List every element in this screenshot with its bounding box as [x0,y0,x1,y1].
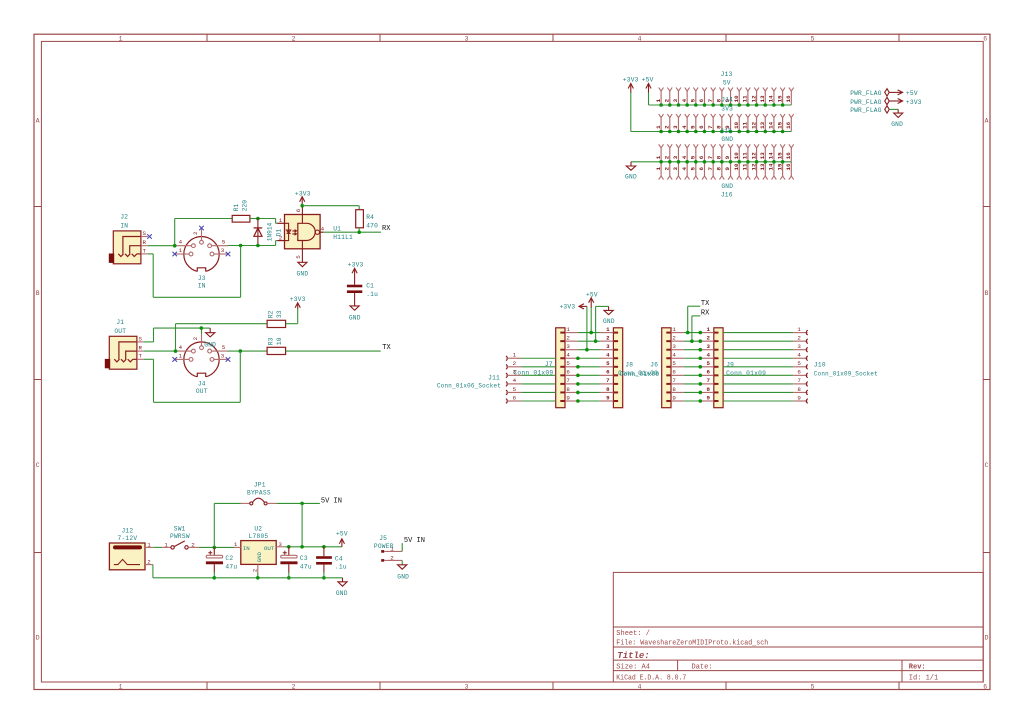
svg-text:B: B [36,290,40,297]
J2 pins S R T [141,236,148,238]
ground symbol GND (header bus) [626,162,635,170]
svg-text:15: 15 [776,163,783,170]
J4 key notch [197,373,206,378]
svg-text:11: 11 [742,163,749,170]
svg-text:.1u: .1u [366,291,378,298]
ground symbol GND (J4 shield) [206,328,215,337]
junction dots 5V bus [659,103,784,107]
svg-text:1: 1 [119,684,123,691]
svg-text:1: 1 [513,352,517,359]
J1 pins S R T [137,341,144,343]
svg-text:2: 2 [707,334,711,341]
svg-text:2: 2 [192,336,199,340]
J4 pin 1 (no connect) [189,358,193,362]
svg-text:Date:: Date: [692,664,713,672]
svg-text:C: C [36,462,40,469]
svg-text:16: 16 [785,95,792,102]
net label TX wire [687,306,689,332]
svg-text:7: 7 [672,377,676,384]
svg-text:RX: RX [701,310,710,318]
power symbol +3V3 (left arrow) [579,304,587,309]
J4 pin 3 (no connect) [210,358,214,362]
power tap +3V3 row3 [586,306,588,349]
ground symbol GND (header tap) [604,306,613,314]
svg-text:4: 4 [606,352,610,359]
svg-text:GND: GND [349,314,361,321]
svg-text:5V IN: 5V IN [404,537,425,545]
svg-text:2: 2 [663,167,670,171]
svg-text:GND: GND [721,183,733,190]
svg-text:2: 2 [663,125,670,129]
svg-text:2: 2 [292,684,296,691]
svg-text:2: 2 [663,98,670,102]
junction [287,576,291,580]
svg-text:8: 8 [707,386,711,393]
U1 pin 6 (VCC) [301,206,303,224]
junction [256,217,260,221]
power symbol +3V3 (U1) [300,197,305,206]
svg-text:3V3: 3V3 [721,105,733,112]
svg-text:+3V3: +3V3 [290,296,306,303]
wire U2.2 to rail [257,573,259,578]
svg-text:C2: C2 [225,555,233,562]
svg-text:4: 4 [681,125,688,129]
wire JP1 down to OUT [301,503,303,546]
svg-text:4: 4 [681,167,688,171]
svg-text:5: 5 [672,360,676,367]
ground symbol GND (U1) [298,262,307,266]
svg-text:OUT: OUT [196,388,208,395]
wire J12.1 to SW1 [153,546,162,548]
svg-text:8: 8 [797,386,801,393]
svg-text:9: 9 [707,394,711,401]
svg-text:13: 13 [759,95,766,102]
junction [174,349,178,353]
svg-text:J9: J9 [726,361,734,368]
svg-text:10: 10 [733,121,740,128]
wires J9 to J10 [723,333,793,401]
svg-text:5: 5 [222,344,226,351]
wire J5.1 to 5V IN [401,543,403,551]
svg-text:3: 3 [513,369,517,376]
wire SW1 to U2 [199,546,234,548]
svg-text:A: A [36,117,40,124]
svg-text:6: 6 [698,167,705,171]
svg-text:7-12V: 7-12V [117,535,137,542]
no-connect J2 S [147,234,152,239]
power tap +5V row1 [590,307,592,333]
svg-text:13: 13 [759,163,766,170]
svg-text:7: 7 [707,98,714,102]
svg-text:PWRSW: PWRSW [170,533,190,540]
svg-text:GND: GND [721,136,733,143]
svg-text:6: 6 [707,369,711,376]
svg-text:9: 9 [672,394,676,401]
svg-text:3: 3 [672,167,679,171]
wire J1.T loop [144,358,154,360]
junction [300,204,304,208]
capacitor C3 47u [288,547,290,556]
svg-text:5: 5 [797,360,801,367]
wire R3 to TX [286,350,381,352]
svg-text:14: 14 [768,95,775,102]
svg-text:8: 8 [716,155,723,159]
J1 sleeve block [105,359,110,368]
wire J5.2 to GND [401,560,403,564]
svg-text:JP1: JP1 [254,481,266,488]
svg-text:R4: R4 [366,214,374,221]
wire GND bus [631,161,791,163]
svg-text:11: 11 [742,152,749,159]
wires J6-J9 rows [684,333,700,401]
svg-text:C: C [985,462,989,469]
svg-text:U2: U2 [254,525,262,532]
J4 pin 2 (shield) [200,346,204,350]
wire U1.4 to RX [323,231,381,233]
wires J11 to J7 [521,358,555,401]
wire J1.S to shield [144,341,154,343]
svg-text:PWR_FLAG: PWR_FLAG [850,90,882,97]
svg-text:Conn_01x09: Conn_01x09 [726,370,766,377]
svg-text:Conn_01x06_Socket: Conn_01x06_Socket [437,383,501,390]
svg-text:10: 10 [733,152,740,159]
svg-text:PWR_FLAG: PWR_FLAG [850,99,882,106]
svg-text:J10: J10 [814,361,826,368]
svg-text:J3: J3 [198,275,206,282]
U1 pin1/pin2 stubs [277,222,284,224]
J3 pin 4 [192,244,196,248]
svg-text:2: 2 [292,35,296,42]
junction [200,326,204,330]
svg-text:6: 6 [566,369,570,376]
svg-text:R: R [139,345,143,352]
svg-text:GND: GND [296,271,308,278]
wire 5V bus [649,104,792,106]
frame column ticks [206,34,208,41]
connector J7 Conn_01x09 body [556,328,565,408]
junction dots 3V3 bus [659,130,784,134]
ground symbol GND (rail) [338,578,347,586]
power tap GND row2 [595,306,597,341]
svg-text:1: 1 [655,167,662,171]
svg-text:2: 2 [797,334,801,341]
regulator U2 L7805 body [241,541,276,565]
U1 pin 4 output [320,231,324,233]
svg-text:8: 8 [672,386,676,393]
svg-text:Rev:: Rev: [909,664,926,672]
svg-text:1: 1 [179,352,183,359]
svg-text:PWR_FLAG: PWR_FLAG [850,107,882,114]
svg-text:4: 4 [681,155,688,159]
svg-text:33: 33 [276,310,283,318]
J3 key notch [197,268,206,273]
wire C2 tap up to JP1 [213,503,215,547]
svg-text:GND: GND [204,341,216,348]
svg-text:2: 2 [390,555,394,562]
svg-text:4: 4 [672,352,676,359]
svg-text:GND: GND [397,574,409,581]
svg-text:1: 1 [164,541,168,548]
svg-text:2: 2 [147,559,151,566]
svg-text:A: A [985,117,989,124]
connector J6 Conn_01x09 body [662,328,671,408]
svg-text:J11: J11 [488,374,500,381]
junction [322,545,326,549]
svg-text:8: 8 [716,167,723,171]
svg-text:POWER: POWER [374,543,394,550]
svg-text:J2: J2 [120,214,128,221]
wire 3V3 bus [631,131,792,133]
svg-text:3: 3 [707,343,711,350]
U2 pin stubs [234,546,241,548]
svg-text:B: B [985,290,989,297]
svg-text:R: R [143,239,147,246]
svg-text:13: 13 [759,152,766,159]
svg-text:47u: 47u [225,564,237,571]
svg-text:J15: J15 [720,128,732,135]
svg-text:6: 6 [698,125,705,129]
J12 pins [145,546,153,548]
svg-text:IN: IN [198,282,206,289]
connector J5 POWER [381,550,384,553]
svg-text:3: 3 [465,684,469,691]
net label RX wire [691,316,693,341]
svg-text:GND: GND [603,318,615,325]
svg-text:Size: A4: Size: A4 [616,664,650,672]
wire [889,108,898,110]
svg-text:15: 15 [776,121,783,128]
svg-text:14: 14 [768,152,775,159]
svg-text:.1u: .1u [335,564,347,571]
svg-text:6: 6 [983,35,987,42]
svg-text:J8: J8 [625,361,633,368]
svg-text:4: 4 [179,344,183,351]
junction [256,576,260,580]
svg-text:5: 5 [811,684,815,691]
junction [213,546,217,550]
svg-text:7: 7 [707,167,714,171]
svg-text:5: 5 [690,155,697,159]
svg-text:14: 14 [768,163,775,170]
svg-text:2: 2 [606,334,610,341]
U1 internal LED [285,223,297,240]
junction [213,576,217,580]
svg-text:File: WaveshareZeroMIDIProto.k: File: WaveshareZeroMIDIProto.kicad_sch [616,640,768,648]
svg-text:2: 2 [663,155,670,159]
svg-text:+5V: +5V [336,530,348,537]
svg-text:3: 3 [606,343,610,350]
svg-text:TX: TX [382,344,391,352]
svg-text:10: 10 [733,163,740,170]
jumper JP1 BYPASS [241,502,250,504]
svg-text:3: 3 [672,343,676,350]
svg-text:5V: 5V [723,79,731,86]
svg-text:9: 9 [797,394,801,401]
svg-text:GND: GND [891,121,903,128]
svg-text:4: 4 [566,352,570,359]
junction [322,576,326,580]
J2 sleeve block [109,254,114,263]
svg-text:Id: 1/1: Id: 1/1 [909,674,938,682]
svg-text:13: 13 [759,121,766,128]
svg-text:+3V3: +3V3 [348,262,364,269]
svg-text:Conn_01x09: Conn_01x09 [618,370,658,377]
connector J3 DIN-5 circle [184,237,219,272]
svg-text:14: 14 [768,121,775,128]
svg-text:GND: GND [256,551,263,562]
svg-text:4: 4 [638,35,642,42]
svg-text:6: 6 [672,369,676,376]
wire J4.5 to R3 [228,350,267,352]
svg-text:TX: TX [701,300,710,308]
svg-text:J5: J5 [379,535,387,542]
wire JP1 to 5V IN label [276,502,320,504]
svg-text:15: 15 [776,95,783,102]
wire R4 bottom to RX line [358,228,360,232]
svg-text:H11L1: H11L1 [333,234,353,241]
svg-text:1: 1 [655,155,662,159]
junction [357,230,361,234]
svg-text:2: 2 [566,334,570,341]
svg-text:4: 4 [513,377,517,384]
junction [287,545,291,549]
svg-text:GND: GND [625,173,637,180]
svg-text:5: 5 [222,239,226,246]
svg-text:12: 12 [750,152,757,159]
svg-text:3: 3 [221,352,225,359]
J4 pin 4 [192,349,196,353]
svg-text:+3V3: +3V3 [623,77,639,84]
power symbol +5V (U2 out) [339,539,344,547]
svg-text:OUT: OUT [264,545,275,552]
svg-text:IN: IN [120,223,128,230]
svg-text:4: 4 [321,225,325,232]
svg-text:4: 4 [638,684,642,691]
svg-text:16: 16 [785,152,792,159]
svg-text:3: 3 [672,125,679,129]
svg-text:3: 3 [221,247,225,254]
svg-text:9: 9 [724,167,731,171]
J3 pin 5 [208,244,212,248]
connector J13 pins (5V header) [655,88,794,106]
svg-text:8: 8 [606,386,610,393]
svg-text:+3V3: +3V3 [559,304,575,311]
svg-text:4: 4 [681,98,688,102]
svg-text:5: 5 [690,98,697,102]
svg-text:8: 8 [566,386,570,393]
power symbol +5V [648,92,650,105]
svg-text:2: 2 [251,568,258,572]
wire R1 to D1 top [250,218,258,220]
junction [300,545,304,549]
junction dots J7 rows 4-9 [576,356,580,402]
svg-text:9: 9 [724,155,731,159]
svg-text:5: 5 [811,35,815,42]
svg-text:Sheet: /: Sheet: / [616,630,650,638]
resistor R2 [267,320,286,327]
svg-text:3: 3 [672,98,679,102]
svg-text:C4: C4 [335,555,343,562]
svg-text:12: 12 [750,121,757,128]
wire J1.R to J4.4 [144,350,176,352]
svg-text:1: 1 [566,326,570,333]
wire J2.T loop [148,253,154,255]
svg-text:7: 7 [707,377,711,384]
svg-text:J14: J14 [721,96,733,103]
svg-text:1N914: 1N914 [267,222,274,241]
svg-text:S: S [139,335,143,342]
svg-text:6: 6 [606,369,610,376]
resistor R3 [267,347,286,354]
J3 pin 2 (shield) [200,240,204,244]
svg-text:15: 15 [776,152,783,159]
svg-text:R2: R2 [267,310,274,318]
svg-text:7: 7 [797,377,801,384]
svg-text:1: 1 [119,35,123,42]
svg-text:1: 1 [707,326,711,333]
wire U2 OUT to +5V [285,546,342,548]
resistor R4 [356,210,364,228]
svg-text:GND: GND [336,590,348,597]
power flag PWR_FLAG (+5V) [885,89,890,96]
J4 pin 5 [208,349,212,353]
wire R2 to +3V3 [286,323,298,325]
power symbol +3V3 arrow [889,99,902,104]
connector J8 Conn_01x09 body [613,328,622,408]
svg-text:6: 6 [698,98,705,102]
svg-text:5: 5 [690,167,697,171]
svg-text:1: 1 [606,326,610,333]
svg-text:7: 7 [606,377,610,384]
wire D1 top to U1 pin1 [258,218,276,220]
U1 pin 5 (GND) [301,241,303,263]
wire shield junction to GND stub [201,327,210,329]
junction [256,244,260,248]
svg-text:5: 5 [707,360,711,367]
connector J2 audio jack body [113,231,141,264]
svg-text:6: 6 [797,369,801,376]
connector J11 Conn_01x06_Socket pins [506,352,522,404]
junction [239,349,243,353]
capacitor C1 [354,269,356,285]
svg-text:1: 1 [279,217,283,224]
junction [239,244,243,248]
J12 sleeve chevron [114,559,140,564]
svg-text:5V IN: 5V IN [321,498,342,506]
svg-text:2: 2 [279,235,283,242]
svg-text:1: 1 [179,247,183,254]
svg-text:2: 2 [672,334,676,341]
svg-text:7: 7 [707,125,714,129]
svg-text:+3V3: +3V3 [906,99,922,106]
svg-text:J6: J6 [650,361,658,368]
capacitor C2 47u [213,547,215,556]
svg-text:+3V3: +3V3 [295,191,311,198]
svg-text:D: D [36,635,40,642]
svg-text:KiCad E.D.A. 8.0.7: KiCad E.D.A. 8.0.7 [616,674,686,682]
J2 contacts [118,237,141,257]
connector J12 barrel jack body [109,543,145,570]
wire up to R1 row [174,219,176,246]
svg-text:J16: J16 [721,192,733,199]
power symbol +3V3 (C1) [352,268,357,273]
ground rail [214,577,342,579]
switch SW1 PWRSW [162,546,171,548]
power symbol +3V3 (R2) [295,303,300,309]
svg-text:4: 4 [797,352,801,359]
svg-text:5: 5 [690,125,697,129]
svg-text:5: 5 [606,360,610,367]
